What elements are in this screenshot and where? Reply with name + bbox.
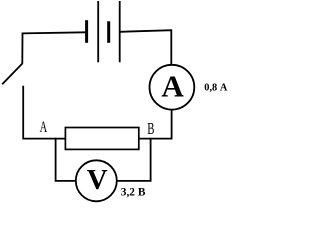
svg-text:A: A bbox=[40, 119, 48, 136]
svg-text:0,8 А: 0,8 А bbox=[204, 81, 227, 93]
svg-text:А: А bbox=[161, 69, 184, 104]
svg-text:V: V bbox=[87, 164, 108, 196]
svg-text:3,2 В: 3,2 В bbox=[121, 185, 146, 199]
svg-text:B: B bbox=[147, 119, 154, 138]
